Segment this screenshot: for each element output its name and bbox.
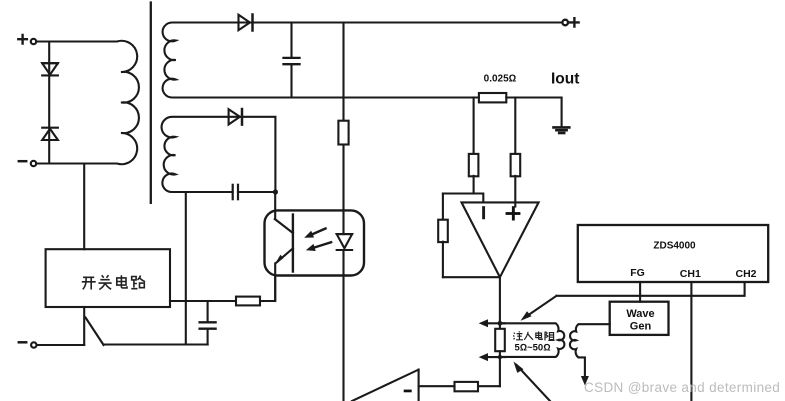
capacitor C3: [200, 301, 216, 345]
light arrow 2: [306, 242, 331, 251]
capacitor C2: [233, 185, 276, 199]
wire: [170, 300, 236, 302]
wire FG pin: [639, 282, 641, 302]
wire: [104, 343, 208, 345]
wire: [83, 164, 85, 250]
arrow probe down: [581, 376, 589, 385]
resistor R8: [455, 382, 479, 391]
optocoupler U2 body: [265, 210, 365, 275]
diode D4: [229, 109, 242, 125]
wire LED feed: [342, 23, 344, 121]
svg-text:0.025Ω: 0.025Ω: [484, 74, 517, 85]
resistor R-shunt 0.025: [479, 93, 506, 102]
resistor R2: [338, 121, 348, 145]
diode D3: [239, 15, 253, 31]
op-amp U1: [462, 202, 539, 277]
wire: [37, 40, 115, 42]
node junction J1: [273, 189, 278, 194]
box switching circuit: [46, 249, 170, 307]
svg-text:5Ω~50Ω: 5Ω~50Ω: [515, 342, 551, 353]
arrow CH2 annotation: [521, 296, 557, 321]
wire CH2 pin: [557, 282, 745, 296]
transistor Q1 base: [292, 215, 294, 272]
transformer T1 secondary winding S2: [162, 117, 242, 192]
resistor R7 injection: [495, 329, 505, 351]
transistor Q1 collector: [275, 219, 293, 233]
arrow injection top: [479, 319, 505, 327]
wire: [274, 192, 276, 219]
transistor Q1 emitter: [275, 248, 293, 264]
transformer T1 core: [150, 3, 152, 203]
svg-text:FG: FG: [630, 267, 645, 279]
label switching circuit (Chinese): [82, 275, 145, 289]
wire: [443, 276, 500, 278]
wire CH1 pin: [690, 282, 692, 401]
arrow annotation bottom: [514, 362, 551, 401]
transformer T1 primary winding: [37, 41, 139, 164]
LED D5: [337, 234, 352, 250]
diode D2: [42, 128, 58, 140]
transformer T1 secondary winding S1: [163, 23, 260, 98]
label plus input: [506, 206, 521, 220]
resistor R6 feedback: [438, 194, 448, 278]
wire: [37, 344, 84, 346]
wire op-amp output: [499, 277, 501, 329]
node - input terminal: [19, 161, 36, 166]
node junction J3: [498, 355, 502, 359]
transformer T2 right winding: [570, 324, 610, 377]
diode D1: [42, 63, 58, 75]
wire: [260, 276, 275, 302]
wire LED down: [342, 250, 344, 401]
node junction J2: [498, 321, 503, 326]
capacitor C1: [284, 23, 300, 98]
resistor R5 sense right: [511, 98, 521, 207]
ground: [554, 127, 570, 133]
svg-text:Wave: Wave: [626, 308, 654, 320]
wire: [506, 98, 561, 127]
transformer T2 left winding: [500, 323, 564, 357]
wire: [253, 21, 563, 23]
node + input terminal: [18, 35, 36, 44]
wire minus input stub: [482, 208, 485, 218]
svg-text:Gen: Gen: [630, 321, 652, 333]
light arrow 1: [304, 229, 325, 238]
wire: [478, 385, 500, 387]
svg-text:CH2: CH2: [735, 268, 756, 280]
wire: [499, 351, 501, 386]
wire: [342, 145, 344, 234]
wire: [274, 264, 276, 302]
svg-text:CH1: CH1: [680, 268, 701, 280]
label injection resistor (Chinese): [513, 331, 554, 340]
node + output terminal: [562, 18, 578, 26]
wire: [37, 162, 115, 164]
svg-text:ZDS4000: ZDS4000: [653, 241, 696, 252]
svg-text:CSDN @brave and determined: CSDN @brave and determined: [584, 380, 780, 395]
box ZDS4000: [578, 225, 768, 282]
wire rail2: [260, 96, 479, 98]
resistor R4 sense left: [469, 98, 479, 194]
box Wave Gen: [610, 302, 669, 335]
svg-text:Iout: Iout: [551, 71, 579, 88]
resistor R3: [236, 297, 260, 306]
label minus input U3: [404, 390, 412, 393]
node - terminal bottom: [19, 342, 37, 347]
wire: [83, 307, 85, 345]
wire: [419, 385, 455, 387]
label Wave Gen: [626, 308, 654, 333]
wire: [242, 117, 275, 192]
arrow injection bottom: [479, 353, 506, 361]
wire: [185, 192, 187, 345]
transistor Q2 slash: [86, 318, 104, 346]
wire: [443, 194, 483, 203]
wire: [48, 42, 50, 164]
op-amp U3 partial: [352, 370, 419, 401]
